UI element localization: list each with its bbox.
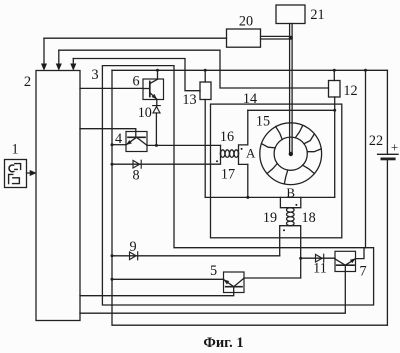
node: rail dot to box4 emitter [111, 143, 114, 146]
coil 19 [287, 208, 291, 226]
wire: block 12 top stub [333, 70, 335, 80]
svg-text:19: 19 [263, 210, 277, 226]
transistor Q6 [149, 82, 151, 97]
coil 19 bottom terminal to diode 9 wire [280, 226, 291, 256]
node A to coil19/18 top wire [205, 196, 335, 198]
motor 15 inner ring [274, 137, 307, 170]
wire: rail to box 4 emitter [112, 144, 126, 146]
node: block 13 tap [204, 69, 207, 72]
svg-text:Фиг. 1: Фиг. 1 [203, 335, 243, 351]
transistor Q4 [128, 136, 145, 138]
block 12 (resistor) [329, 81, 341, 98]
svg-text:B: B [286, 185, 295, 200]
node: rail dot to diode 8 [111, 163, 114, 166]
svg-text:6: 6 [132, 74, 139, 90]
wire: to diode 11 [301, 257, 335, 259]
battery 22 rail (right side) [386, 70, 388, 325]
wire: box 7 collector up to bus [356, 248, 365, 259]
svg-text:20: 20 [239, 14, 253, 30]
wire L3: to block 13 [73, 59, 200, 91]
node: corner junction [333, 109, 336, 112]
coil 16 left terminal to wire W1 [220, 145, 222, 154]
svg-text:14: 14 [243, 91, 257, 107]
wire: rail to box 5 emitter [112, 278, 224, 280]
wire W1: box4 collector to coil 16 [147, 144, 221, 146]
wire: box 6 emitter to diode 10 [156, 99, 158, 106]
wire: block 13 bottom rail down to node A wire [204, 100, 206, 198]
svg-text:15: 15 [256, 114, 270, 130]
diode 10 [153, 106, 161, 113]
polarity dot coil 18 [295, 204, 297, 206]
diode 9 [130, 252, 138, 260]
svg-text:3: 3 [91, 67, 98, 83]
svg-text:10: 10 [138, 105, 152, 121]
right rail from supply top to bus [365, 70, 367, 247]
svg-text:2: 2 [24, 74, 31, 90]
box 5 (transistor switch) [224, 272, 245, 293]
net 3 loop (frame) [102, 66, 373, 305]
svg-text:5: 5 [210, 263, 217, 279]
svg-text:22: 22 [369, 133, 383, 149]
svg-text:+: + [391, 140, 398, 155]
supply net top line from x=112 to battery rail [112, 69, 387, 71]
svg-text:A: A [246, 146, 256, 161]
shaft (double line) from block 21 to motor centre [290, 24, 293, 153]
wire: diode 10 to W1 [155, 113, 157, 145]
polarity dot coil 17 [216, 160, 218, 162]
node: right rail tap [364, 69, 367, 72]
wire: block 2 to box 7 base (bus) [80, 272, 345, 314]
block 20 (sensor) [227, 29, 261, 47]
box 7 (transistor switch) [335, 251, 356, 271]
svg-text:16: 16 [220, 129, 234, 145]
wire: block 2 to box 5 base (bus) [80, 293, 234, 296]
coil 18 top terminal [290, 197, 301, 207]
node: diode 10 joins W1 [155, 144, 158, 147]
wire: diode 9 run to coil 19 [112, 255, 280, 257]
node: box 6 collector tap [156, 69, 159, 72]
frame 14 [211, 104, 342, 238]
stator wire: top run from node A vertical to block12 corner [248, 110, 335, 197]
svg-text:13: 13 [182, 92, 196, 108]
svg-text:4: 4 [115, 131, 122, 147]
motor 15 blade 1 [295, 125, 303, 137]
coil 18 [290, 208, 294, 226]
svg-text:12: 12 [343, 83, 357, 99]
node: block 12 tap [333, 69, 336, 72]
box 4 (transistor switch) [126, 132, 147, 152]
transistor Q7 [337, 264, 354, 266]
transistor Q5 [226, 286, 242, 288]
wire L2: to block 12 [59, 50, 329, 88]
motor 15 blade 6 [267, 164, 277, 174]
polarity dot coil 16 [241, 148, 243, 150]
svg-text:21: 21 [310, 7, 324, 23]
svg-text:8: 8 [132, 168, 139, 184]
mechanical double link block20 to shaft [261, 36, 290, 39]
coil 17 [221, 153, 239, 157]
diode 11 [316, 254, 324, 262]
wire L1: top line to block 20 [44, 37, 227, 39]
motor 15 blade 8 [276, 127, 283, 140]
node A vertical upper [239, 110, 248, 153]
coil 18 bottom terminal rail [290, 226, 300, 278]
wire: block 1 output arrow to block 2 [27, 172, 31, 174]
coil 16 [221, 150, 239, 154]
block 13 (resistor) [200, 82, 211, 100]
motor 15 blade 3 [307, 149, 321, 152]
wire: block 2 to box 4 base [80, 129, 136, 132]
wire: block 12 bottom stub to winding ring [334, 97, 336, 110]
node: rail dot to diode 9 [111, 254, 114, 257]
svg-text:18: 18 [302, 210, 316, 226]
block 21 [276, 5, 305, 24]
svg-text:7: 7 [359, 264, 366, 280]
block 1 (pulse generator) [5, 160, 27, 188]
svg-text:9: 9 [129, 239, 136, 255]
coil 19 top terminal [280, 197, 290, 207]
wire W2: diode 8 to coil 17 left terminal [112, 153, 221, 164]
node A vertical lower [247, 164, 249, 197]
svg-text:11: 11 [313, 261, 327, 277]
motor 15 blade 2 [304, 134, 314, 144]
motor 15 outer ring [260, 123, 322, 185]
wire: box 5 collector to coil 18 rail [244, 277, 301, 279]
block 2 (distributor) [36, 71, 80, 321]
node: diode 11 branch [299, 257, 302, 260]
svg-text:1: 1 [11, 142, 18, 158]
motor 15 blade 4 [303, 165, 315, 173]
coil 17 right terminal to node A [239, 153, 248, 164]
motor 15 blade 7 [262, 144, 276, 148]
diode 8 [133, 160, 141, 168]
wire: block 2 to box 6 base [80, 87, 143, 89]
polarity dot coil 19 [283, 229, 285, 231]
box 6 (transistor switch) [143, 79, 164, 100]
wire: block 13 top stub [204, 70, 206, 82]
shaft end dot at motor centre [289, 152, 293, 156]
wire: box 6 collector to supply [157, 70, 159, 79]
node: rail dot to box5 emitter [111, 278, 114, 281]
motor 15 blade 5 [284, 170, 288, 184]
node: A vertical meets wire [246, 196, 249, 199]
node: link to shaft junction [289, 36, 293, 40]
battery 22 plates [378, 153, 398, 155]
block 1 symbol (G + meander) [9, 165, 14, 172]
svg-text:17: 17 [221, 167, 235, 183]
supply net left rail down and bottom return [112, 70, 387, 325]
